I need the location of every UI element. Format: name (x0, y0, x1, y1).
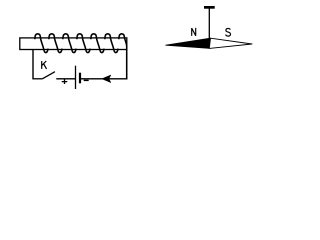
coil winding (7 turns) with right lead wire (35, 34, 127, 79)
label - (battery negative) (84, 79, 89, 81)
label S (226, 28, 231, 36)
label K (42, 61, 47, 69)
compass stand rod (208, 9, 210, 39)
battery positive plate (long) (75, 66, 77, 89)
label N (192, 28, 196, 36)
compass needle north half (black) (166, 38, 211, 48)
wire: battery to right lead (81, 78, 127, 80)
battery negative plate (short thick) (79, 73, 81, 84)
solenoid core tube (20, 38, 127, 50)
wire: switch to battery positive plate (56, 78, 75, 80)
compass stand top bar (204, 6, 215, 9)
wire: left lead from tube bottom edge down to switch (32, 49, 34, 78)
wire: bottom-left horizontal stub from left lead to switch contact (32, 78, 42, 80)
current direction arrowhead on bottom wire (102, 75, 111, 83)
label + (battery positive) (62, 79, 68, 84)
switch K blade (open) (43, 72, 55, 79)
compass needle south half (white) (209, 38, 252, 48)
